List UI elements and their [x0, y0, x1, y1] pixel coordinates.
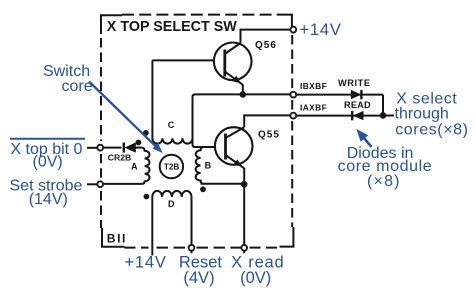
- node label Reset (4V): [179, 254, 223, 288]
- junction 1BXBF node: [240, 91, 247, 98]
- junction Q55 emitter / winding B: [241, 181, 248, 188]
- polarity dot winding C: [143, 130, 149, 136]
- svg-text:D: D: [168, 199, 175, 209]
- node label X top bit 0 (0V), with overline: [10, 139, 97, 171]
- node label Set strobe (14V): [10, 178, 97, 208]
- wire Q55 emitter junction to X read terminal: [243, 184, 245, 253]
- terminal Reset: [189, 245, 195, 251]
- terminal 1BXBF: [290, 92, 296, 98]
- svg-text:+14V: +14V: [125, 254, 167, 272]
- svg-text:Q55: Q55: [258, 129, 280, 140]
- polarity dot winding D: [144, 194, 150, 200]
- transistor Q55: [215, 127, 253, 168]
- svg-text:(4V): (4V): [183, 269, 214, 287]
- svg-text:(×8): (×8): [367, 173, 401, 190]
- diode READ (points left): [352, 111, 363, 120]
- transformer switch core T2B: [160, 155, 183, 178]
- svg-text:BII: BII: [107, 231, 127, 245]
- wire Q56 collector to +14V terminal: [241, 30, 292, 43]
- terminal X top bit 0: [97, 145, 103, 151]
- annotation: Switch core (blue): [43, 63, 93, 95]
- annotation: X select through cores (x8): [395, 91, 469, 139]
- wire winding B to Q55 emitter junction: [201, 183, 245, 185]
- winding A of T2B: [142, 148, 150, 184]
- terminal 1AXBF: [290, 113, 296, 119]
- wire right connector joining WRITE and READ lines: [383, 95, 394, 116]
- svg-text:B: B: [205, 161, 212, 171]
- svg-text:Q56: Q56: [255, 40, 277, 51]
- terminal Set strobe: [97, 181, 103, 187]
- annotation: Diodes in core module (x8): [338, 145, 433, 190]
- node label X read (0V): [231, 254, 284, 288]
- wire X top bit 0 terminal to CR2B: [103, 147, 121, 149]
- winding C of T2B: [152, 60, 192, 143]
- diode CR2B: [124, 142, 136, 152]
- terminal X read: [241, 245, 247, 251]
- wire Q55 collector to 1AXBF terminal: [244, 115, 291, 127]
- svg-text:(0V): (0V): [33, 154, 63, 171]
- junction WRITE/READ connector: [380, 112, 387, 119]
- svg-text:A: A: [131, 162, 138, 172]
- winding D of T2B: [152, 191, 191, 197]
- svg-text:(14V): (14V): [29, 191, 68, 208]
- wire 1AXBF terminal to READ diode line: [296, 115, 383, 117]
- annotation arrow to switch core: [89, 82, 163, 154]
- svg-text:IAXBF: IAXBF: [300, 102, 327, 112]
- polarity dot winding A: [136, 140, 142, 146]
- wire Q55 emitter to winding B junction: [243, 168, 245, 184]
- svg-text:(0V): (0V): [240, 269, 271, 287]
- wire 1BXBF node to Q55 base: [193, 94, 243, 147]
- svg-text:READ: READ: [344, 100, 371, 110]
- svg-text:X TOP SELECT SW: X TOP SELECT SW: [107, 19, 237, 35]
- terminal +14V: [290, 27, 296, 33]
- svg-text:C: C: [168, 120, 175, 130]
- wire CR2B to winding A: [135, 147, 141, 149]
- wire winding A to Set strobe terminal: [103, 183, 141, 185]
- svg-text:cores(×8): cores(×8): [395, 121, 468, 138]
- wire Q56 emitter to 1BXBF node: [242, 85, 244, 95]
- svg-text:CR2B: CR2B: [108, 152, 131, 162]
- winding B of T2B: [196, 147, 204, 184]
- wire 1BXBF node to terminal: [243, 93, 291, 95]
- wire winding D to Reset terminal: [191, 197, 193, 253]
- svg-text:IBXBF: IBXBF: [300, 81, 327, 91]
- polarity dot winding B: [200, 186, 206, 192]
- transistor Q56: [214, 43, 252, 85]
- svg-text:through: through: [395, 106, 449, 123]
- diode WRITE (points right): [351, 90, 362, 99]
- wire Q56 base: [152, 59, 214, 61]
- wire 1BXBF terminal to WRITE diode line: [296, 94, 383, 96]
- wire +14V (bottom) through boundary: [151, 197, 153, 256]
- svg-text:core: core: [62, 78, 93, 95]
- svg-text:WRITE: WRITE: [338, 78, 371, 88]
- module boundary B11 (dashed box): [101, 15, 293, 248]
- svg-text:T2B: T2B: [164, 163, 180, 172]
- annotation arrow to READ diode: [356, 129, 371, 147]
- svg-text:+14V: +14V: [300, 21, 342, 39]
